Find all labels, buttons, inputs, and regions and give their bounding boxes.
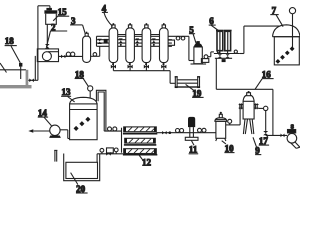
valve bank under columns 6 bbox=[214, 50, 240, 58]
media dots in tank 13 bbox=[74, 117, 91, 131]
valve on drain line bbox=[106, 152, 111, 156]
label 17 bbox=[259, 136, 269, 147]
wire: manifold down to vessel 5 bbox=[189, 36, 194, 60]
valve at tank 1 outlet bbox=[29, 79, 34, 83]
bottom valves of columns bbox=[113, 63, 163, 71]
tank 1 bbox=[0, 63, 32, 88]
svg-text:15: 15 bbox=[58, 7, 68, 17]
valve on manifold left bbox=[98, 39, 102, 44]
valve above pump 2 bbox=[45, 44, 50, 49]
gauge circle at column 3 outlet bbox=[93, 53, 97, 57]
label 18 (left) bbox=[5, 36, 21, 63]
wire: pump 14 discharge to tank 13 bbox=[60, 130, 70, 139]
jumper at column 4 bbox=[168, 40, 174, 45]
wire: over-pipe from tank 13 to filter press bbox=[96, 90, 121, 131]
media dots in tank 7 bbox=[275, 46, 294, 64]
gauge at vessel 9 and drop to valve 17 bbox=[259, 106, 288, 135]
valve 18 (feed dot valve) bbox=[19, 63, 22, 79]
flow circles left of 11 bbox=[176, 129, 180, 133]
svg-text:12: 12 bbox=[142, 157, 152, 167]
flange before pump 8 bbox=[281, 134, 285, 138]
label 20 bbox=[71, 173, 88, 194]
tank 13 bbox=[70, 97, 98, 139]
filter press 12 bbox=[122, 127, 158, 156]
gauge 18 on tank 13 bbox=[88, 86, 93, 98]
wire: vessel 15 down to pump 2 bbox=[46, 24, 48, 43]
label 14 bbox=[38, 108, 52, 126]
wire: riser to tank 7 bbox=[240, 26, 280, 53]
label 13 bbox=[61, 87, 75, 102]
flow circles right of 11 bbox=[198, 128, 202, 132]
label 18 (middle) bbox=[75, 70, 89, 87]
wire: vessel 10 outlet up to vessel 9 bbox=[226, 105, 240, 125]
gauge and box at vessel 5 outlet bbox=[201, 52, 214, 62]
label 9 bbox=[253, 137, 261, 155]
wire: suction with arrow bbox=[28, 129, 50, 133]
svg-text:16: 16 bbox=[262, 69, 272, 79]
vessel 9 bbox=[239, 91, 259, 134]
wire: column 3 outlet bbox=[91, 46, 100, 56]
manifold lines of column group 4 bbox=[97, 36, 189, 46]
tank 7 bbox=[273, 25, 301, 65]
columns group 4 bbox=[109, 28, 168, 63]
label 15 bbox=[53, 7, 69, 21]
pump 14 bbox=[49, 125, 61, 138]
filter columns 6 bbox=[216, 30, 232, 51]
label 7 bbox=[270, 6, 283, 27]
valve 17 bbox=[263, 131, 268, 135]
vessel 10 bbox=[215, 112, 227, 141]
svg-text:13: 13 bbox=[62, 87, 72, 97]
spare pipe above tank 20 bbox=[54, 150, 57, 161]
svg-text:11: 11 bbox=[189, 145, 198, 155]
valve on pump 2 discharge bbox=[61, 55, 65, 59]
inline unit 11 bbox=[185, 117, 198, 140]
wire: main bottom line bbox=[156, 132, 216, 134]
valve (actuated) on manifold left bbox=[104, 39, 108, 44]
label 3 bbox=[70, 16, 85, 33]
label 10 bbox=[222, 141, 235, 154]
wire: line 16 horizontal and drop to pump 8 bbox=[216, 89, 273, 135]
vessel 15 (dosing tank) bbox=[44, 8, 57, 24]
svg-text:18: 18 bbox=[5, 36, 15, 46]
label 2 bbox=[46, 22, 67, 47]
tank 20 bbox=[64, 154, 100, 181]
svg-text:20: 20 bbox=[76, 184, 86, 194]
basin 19 bbox=[175, 76, 200, 87]
label 11 bbox=[189, 141, 199, 155]
label 19 bbox=[186, 84, 204, 98]
wire: pump 2 discharge bbox=[59, 55, 83, 57]
valve and dot on main line bbox=[162, 131, 167, 134]
label 5 bbox=[189, 25, 197, 45]
column 3 bbox=[83, 32, 91, 63]
wire: shoulder line connecting column tops bbox=[113, 34, 164, 36]
label 4 bbox=[102, 3, 113, 26]
pump 8 (blower) bbox=[287, 130, 300, 149]
wire: line 16 drop from columns 6 bbox=[215, 58, 217, 89]
flow indicator circles bbox=[66, 52, 70, 56]
column caps bbox=[112, 25, 166, 28]
wire: tank outlet pipes to pump 2 and riser bbox=[28, 6, 50, 81]
label 6 bbox=[209, 16, 219, 30]
wire: bottom collector to basin 19 bbox=[113, 71, 175, 84]
label 12 bbox=[139, 155, 152, 167]
agitator of tank 7 bbox=[289, 8, 295, 49]
pump 2 bbox=[37, 49, 58, 62]
valves between columns (manifold) bbox=[119, 38, 156, 43]
flow indicator circles right of column 4 bbox=[176, 36, 180, 40]
label 16 bbox=[255, 69, 274, 89]
svg-text:14: 14 bbox=[38, 108, 48, 118]
svg-text:7: 7 bbox=[272, 6, 277, 16]
wire: drain line from filter press to tank 20 bbox=[97, 148, 123, 162]
vessel 5 bbox=[191, 41, 207, 64]
